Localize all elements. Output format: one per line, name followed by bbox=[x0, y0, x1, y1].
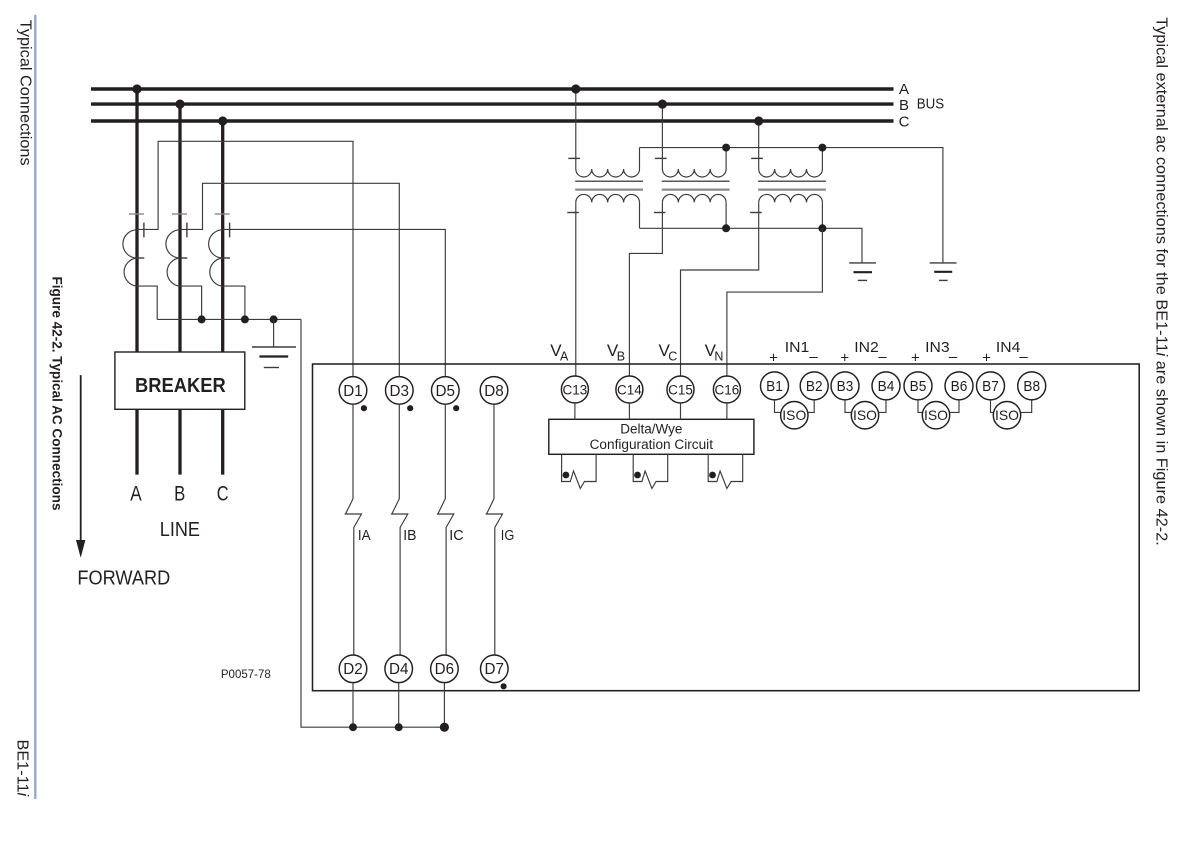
wire: C15 to configuration circuit bbox=[680, 403, 682, 419]
terminal D8 bbox=[480, 377, 508, 405]
svg-text:–: – bbox=[1019, 349, 1028, 366]
svg-text:B: B bbox=[899, 97, 909, 114]
svg-text:IB: IB bbox=[403, 528, 416, 544]
transformer PT-A primary winding bbox=[576, 169, 640, 177]
internal VT winding 2 bbox=[633, 454, 668, 488]
svg-text:B: B bbox=[174, 483, 185, 506]
forward arrow bbox=[76, 375, 85, 558]
terminal B7 bbox=[977, 372, 1005, 400]
wire: B6 to ISO bbox=[949, 400, 959, 413]
svg-text:B8: B8 bbox=[1023, 378, 1040, 395]
svg-text:IC: IC bbox=[449, 528, 463, 544]
node VB bbox=[629, 202, 662, 376]
junction: PT-B secondary on common bbox=[722, 224, 730, 232]
wire: CT common bus bbox=[157, 318, 301, 320]
wire: C13 to configuration circuit bbox=[574, 403, 576, 419]
svg-text:B7: B7 bbox=[982, 378, 999, 395]
terminal B6 bbox=[945, 372, 973, 400]
svg-text:LINE: LINE bbox=[160, 519, 200, 541]
svg-text:+: + bbox=[911, 349, 920, 366]
svg-text:C15: C15 bbox=[668, 382, 693, 397]
svg-text:D1: D1 bbox=[343, 383, 363, 400]
wire: internal CT column IG with switch bbox=[486, 404, 503, 655]
wire: B5 to ISO bbox=[918, 400, 923, 413]
transformer PT-B core bbox=[662, 180, 730, 182]
bus B bbox=[91, 102, 894, 105]
svg-text:B3: B3 bbox=[837, 378, 854, 395]
svg-text:B1: B1 bbox=[766, 378, 783, 395]
svg-text:+: + bbox=[840, 349, 849, 366]
svg-text:B6: B6 bbox=[951, 378, 968, 395]
svg-text:A: A bbox=[560, 350, 569, 364]
wire: CT-C secondary to terminal D5 bbox=[223, 229, 446, 376]
wire: PT-B secondary return drop bbox=[725, 202, 727, 228]
svg-text:A: A bbox=[130, 483, 141, 506]
isolation block ISO 3 bbox=[922, 402, 949, 429]
wire: B7 to ISO bbox=[991, 400, 994, 413]
polarity dot D1 bbox=[361, 405, 367, 411]
svg-text:D8: D8 bbox=[484, 383, 504, 400]
internal VT winding 3 bbox=[708, 454, 743, 488]
wire: phase B below breaker to line bbox=[178, 409, 181, 474]
svg-text:ISO: ISO bbox=[782, 407, 806, 423]
wire: CT-B secondary to terminal D3 bbox=[180, 183, 399, 376]
wire: C14 to configuration circuit bbox=[628, 403, 630, 419]
wire: B4 to ISO bbox=[878, 400, 886, 413]
transformer PT-A primary tap from bus A bbox=[575, 89, 577, 169]
svg-text:ISO: ISO bbox=[924, 407, 948, 423]
svg-text:–: – bbox=[809, 349, 818, 366]
svg-text:ISO: ISO bbox=[853, 407, 877, 423]
transformer PT-A secondary winding bbox=[576, 194, 640, 202]
node VA bbox=[575, 202, 577, 376]
wire: CT-A secondary return bbox=[137, 286, 157, 319]
wire: CT-B secondary return bbox=[180, 286, 202, 319]
PT-B secondary tick bbox=[654, 212, 666, 214]
svg-text:Configuration Circuit: Configuration Circuit bbox=[590, 437, 714, 452]
terminal B4 bbox=[872, 372, 900, 400]
svg-text:P0057-78: P0057-78 bbox=[221, 669, 271, 681]
junction: PT-B tap on bus bbox=[658, 100, 667, 109]
svg-text:FORWARD: FORWARD bbox=[77, 568, 170, 590]
terminal D5 bbox=[432, 377, 460, 405]
svg-text:D5: D5 bbox=[436, 383, 456, 400]
polarity dot D5 bbox=[453, 405, 459, 411]
polarity dot D3 bbox=[407, 405, 413, 411]
svg-text:+: + bbox=[769, 349, 778, 366]
ground: CT common ground bbox=[252, 319, 296, 367]
svg-text:+: + bbox=[982, 349, 991, 366]
wire: CT-A secondary to terminal D1 bbox=[137, 141, 353, 376]
svg-text:IN1: IN1 bbox=[785, 339, 810, 356]
terminal D3 bbox=[386, 377, 414, 405]
wire: PT primary common (wye) bbox=[640, 148, 943, 263]
junction: D4 on return bus bbox=[395, 723, 403, 731]
wire: B3 to ISO bbox=[845, 400, 852, 413]
svg-text:IA: IA bbox=[358, 528, 371, 544]
svg-text:C13: C13 bbox=[563, 382, 588, 397]
wire: B1 to ISO bbox=[775, 400, 782, 413]
PT-B primary tick bbox=[655, 157, 667, 159]
CT phase C upper tick bbox=[215, 213, 230, 215]
wire: PT-A primary return riser bbox=[639, 148, 641, 169]
junction: phase C tap on bus bbox=[218, 116, 227, 125]
terminal C15 bbox=[667, 376, 694, 403]
transformer PT-B primary tap from bus B bbox=[661, 104, 663, 169]
junction: phase B tap on bus bbox=[175, 100, 184, 109]
svg-text:C14: C14 bbox=[617, 382, 642, 397]
wire: internal CT column IA with switch bbox=[345, 404, 362, 655]
svg-text:Typical Connections: Typical Connections bbox=[17, 20, 34, 166]
PT-A secondary tick bbox=[567, 212, 579, 214]
node VC bbox=[681, 202, 759, 376]
terminal B2 bbox=[800, 372, 828, 400]
PT-C primary tick bbox=[751, 157, 763, 159]
junction: CT-B return on common bbox=[198, 315, 206, 323]
wire: B8 to ISO bbox=[1020, 400, 1031, 413]
ground: PT secondary neutral ground bbox=[849, 263, 876, 281]
svg-text:C16: C16 bbox=[715, 382, 740, 397]
wire: phase A drop from bus to breaker bbox=[135, 89, 138, 352]
transformer PT-B secondary winding bbox=[662, 194, 726, 202]
svg-text:D4: D4 bbox=[389, 661, 409, 678]
svg-text:IN3: IN3 bbox=[925, 339, 950, 356]
svg-text:Figure 42-2. Typical AC Connec: Figure 42-2. Typical AC Connections bbox=[49, 277, 64, 511]
polarity dot D7 bbox=[501, 683, 507, 689]
bus C bbox=[91, 119, 894, 122]
ground: PT primary neutral ground bbox=[930, 263, 957, 281]
wire: internal CT column IB with switch bbox=[391, 404, 408, 655]
junction: CT-C return on common bbox=[241, 315, 249, 323]
svg-text:B: B bbox=[617, 350, 625, 364]
svg-text:BE1-11i: BE1-11i bbox=[14, 740, 31, 797]
wire: phase C drop from bus to breaker bbox=[221, 121, 224, 352]
svg-text:Delta/Wye: Delta/Wye bbox=[620, 422, 682, 437]
internal VT winding 1 bbox=[562, 454, 597, 488]
transformer PT-C core bbox=[758, 180, 826, 182]
wire: terminal D6 to return bus bbox=[443, 683, 445, 728]
wire: CT-C secondary return bbox=[223, 286, 245, 319]
junction: PT-A tap on bus bbox=[571, 84, 580, 93]
wire: terminal D4 to return bus bbox=[398, 683, 400, 728]
wire: terminal D2 to return bus bbox=[352, 683, 354, 728]
CT phase C secondary winding bbox=[209, 230, 223, 286]
wire: B2 to ISO bbox=[808, 400, 815, 413]
terminal D4 bbox=[385, 655, 413, 683]
svg-text:D2: D2 bbox=[343, 661, 363, 678]
transformer PT-B primary winding bbox=[662, 169, 726, 177]
svg-text:BREAKER: BREAKER bbox=[135, 374, 226, 397]
svg-text:–: – bbox=[949, 349, 958, 366]
relay case BE1-11i bbox=[313, 364, 1140, 691]
svg-text:B5: B5 bbox=[910, 378, 927, 395]
svg-text:N: N bbox=[714, 350, 723, 364]
wire: PT-A secondary return drop bbox=[639, 202, 641, 228]
svg-text:IG: IG bbox=[501, 528, 515, 544]
CT phase B secondary winding bbox=[166, 230, 180, 286]
junction: phase A tap on bus bbox=[132, 84, 141, 93]
terminal C13 bbox=[561, 376, 588, 403]
junction: PT-C tap on bus bbox=[754, 116, 763, 125]
svg-text:D3: D3 bbox=[390, 383, 410, 400]
wire: PT-C primary return riser bbox=[821, 148, 823, 169]
junction: PT-C primary on common bbox=[818, 144, 826, 152]
junction: PT-B primary on common bbox=[722, 144, 730, 152]
CT phase C polarity tick bbox=[229, 223, 231, 238]
transformer PT-C primary winding bbox=[759, 169, 823, 177]
terminal B8 bbox=[1018, 372, 1046, 400]
isolation block ISO 1 bbox=[781, 402, 808, 429]
svg-text:IN2: IN2 bbox=[854, 339, 879, 356]
terminal B1 bbox=[761, 372, 789, 400]
svg-text:D6: D6 bbox=[435, 661, 455, 678]
wire: CT common down to D2/D4/D6 return bus bbox=[301, 319, 444, 727]
wire: internal CT column IC with switch bbox=[437, 404, 454, 655]
wire: phase A below breaker to line bbox=[135, 409, 138, 474]
CT phase C mid tick bbox=[221, 257, 230, 259]
CT phase A polarity tick bbox=[143, 223, 145, 238]
wire: PT-C secondary return drop bbox=[821, 202, 823, 228]
breaker bbox=[115, 352, 245, 409]
wire: PT secondary common bbox=[640, 228, 863, 263]
left margin rule bbox=[34, 15, 36, 799]
bus A bbox=[91, 87, 894, 90]
terminal D6 bbox=[431, 655, 459, 683]
svg-text:–: – bbox=[878, 349, 887, 366]
svg-text:BUS: BUS bbox=[917, 96, 944, 113]
terminal B3 bbox=[831, 372, 859, 400]
PT-C secondary tick bbox=[750, 212, 762, 214]
svg-text:ISO: ISO bbox=[995, 407, 1019, 423]
transformer PT-C primary tap from bus C bbox=[758, 121, 760, 169]
svg-text:C: C bbox=[668, 350, 677, 364]
terminal B5 bbox=[904, 372, 932, 400]
isolation block ISO 4 bbox=[993, 402, 1020, 429]
junction: D2 on return bus bbox=[349, 723, 357, 731]
CT phase B polarity tick bbox=[186, 223, 188, 238]
node VN bbox=[727, 228, 823, 376]
svg-text:B2: B2 bbox=[806, 378, 823, 395]
Delta/Wye configuration circuit bbox=[549, 419, 754, 454]
terminal D2 bbox=[339, 655, 367, 683]
transformer PT-A core bbox=[575, 180, 643, 182]
svg-text:B4: B4 bbox=[878, 378, 895, 395]
wire: C16 to configuration circuit bbox=[726, 403, 728, 419]
CT phase B upper tick bbox=[172, 213, 187, 215]
junction: D6 on return bus bbox=[440, 723, 449, 732]
junction: ground tap on CT common bbox=[270, 315, 278, 323]
terminal C14 bbox=[616, 376, 643, 403]
terminal C16 bbox=[713, 376, 740, 403]
transformer PT-C secondary winding bbox=[759, 194, 823, 202]
PT-A primary tick bbox=[568, 157, 580, 159]
isolation block ISO 2 bbox=[851, 402, 878, 429]
wire: phase B drop from bus to breaker bbox=[178, 104, 181, 352]
svg-text:C: C bbox=[217, 483, 229, 506]
svg-text:A: A bbox=[899, 81, 909, 98]
svg-text:Typical external ac connection: Typical external ac connections for the … bbox=[1153, 17, 1170, 546]
terminal D1 bbox=[339, 377, 367, 405]
svg-text:D7: D7 bbox=[485, 661, 505, 678]
CT phase A upper tick bbox=[129, 213, 144, 215]
wire: PT-B primary return riser bbox=[725, 148, 727, 169]
svg-text:C: C bbox=[899, 113, 910, 130]
terminal D7 bbox=[481, 655, 509, 683]
CT phase B mid tick bbox=[178, 257, 187, 259]
svg-text:IN4: IN4 bbox=[996, 339, 1021, 356]
wire: phase C below breaker to line bbox=[221, 409, 224, 474]
junction: PT-C secondary / VN tap bbox=[818, 224, 826, 232]
CT phase A mid tick bbox=[135, 257, 144, 259]
CT phase A secondary winding bbox=[123, 230, 137, 286]
